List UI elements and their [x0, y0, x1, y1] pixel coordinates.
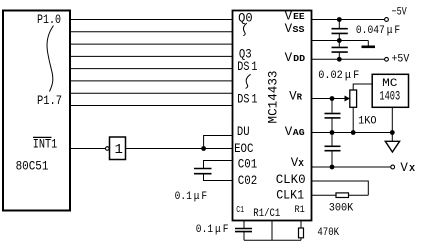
- pin label DS1 (lower): [237, 93, 257, 107]
- pin label INT1 (active low): [33, 137, 58, 151]
- pin label VX: [291, 156, 305, 170]
- wire CLK0 loop: [312, 181, 369, 195]
- ground (analog triangle): [385, 133, 399, 153]
- pin label P1.0: [37, 13, 61, 27]
- wire VX: [312, 166, 392, 168]
- value label 470K: [317, 227, 339, 239]
- svg-text:DD: DD: [293, 54, 306, 64]
- svg-text:X: X: [298, 159, 304, 169]
- node VAG junction 1: [330, 130, 335, 135]
- node VEE junction: [337, 17, 342, 22]
- wire bus line 5 (DS1): [70, 68, 232, 70]
- pin label P1.7: [37, 94, 62, 108]
- pin label DS1: [237, 60, 257, 74]
- inverter U2 bubble: [106, 147, 110, 151]
- wire C1 pin down: [243, 221, 245, 229]
- terminal +5V: [385, 57, 389, 61]
- value label 0.1 uF (C1 cap): [196, 224, 229, 236]
- pin label DU: [237, 125, 250, 139]
- wire bottom rail: [244, 239, 301, 241]
- potentiometer RP 1K body: [350, 90, 357, 107]
- IC MC14433 box: [233, 11, 312, 221]
- svg-text:0.02 μ F: 0.02 μ F: [318, 70, 359, 82]
- svg-text:470K: 470K: [317, 227, 339, 239]
- capacitor C1 0.047uF: [332, 20, 348, 41]
- svg-text:P1.0: P1.0: [37, 13, 61, 27]
- svg-text:DS 1: DS 1: [237, 93, 257, 107]
- svg-text:CLK1: CLK1: [276, 188, 304, 202]
- svg-text:C02: C02: [238, 174, 257, 188]
- wire R1 pin down: [300, 221, 302, 229]
- wire bus line 1 (P1.0 - Q0): [70, 19, 232, 21]
- wire CLK1: [312, 194, 337, 196]
- svg-text:INT1: INT1: [33, 138, 58, 152]
- pin label VSS: [285, 22, 306, 36]
- svg-text:0.1 μ F: 0.1 μ F: [196, 224, 229, 236]
- svg-text:300K: 300K: [329, 202, 354, 214]
- svg-text:MC14433: MC14433: [267, 71, 281, 124]
- capacitor C2 0.02uF: [332, 41, 348, 60]
- pin label Q3: [239, 48, 252, 62]
- svg-text:−5V: −5V: [392, 6, 407, 18]
- wire C02 pin: [204, 174, 233, 181]
- pin label EOC: [234, 142, 253, 156]
- label -5V: [392, 6, 407, 18]
- wire bus line 8 (DS4/P1.7): [70, 105, 232, 107]
- svg-text:CLK0: CLK0: [276, 173, 306, 187]
- wire VEE to -5V: [312, 19, 386, 21]
- svg-text:C1: C1: [236, 204, 244, 215]
- pin label VDD: [285, 51, 306, 65]
- svg-text:1: 1: [115, 142, 123, 158]
- value label 0.02 uF: [318, 70, 359, 82]
- svg-text:DS 1: DS 1: [237, 60, 257, 74]
- wire MC1403 gnd pin: [391, 107, 393, 132]
- svg-text:DU: DU: [237, 125, 250, 139]
- pin label VEE: [285, 9, 306, 23]
- pin label CLK1: [276, 188, 304, 202]
- svg-text:R: R: [297, 92, 303, 102]
- inverter U2 box: [110, 137, 126, 160]
- label Vx: [400, 161, 415, 175]
- node VAG junction 2: [351, 130, 356, 135]
- wire R1 body to rail: [300, 238, 302, 241]
- wire VSS: [312, 40, 369, 42]
- svg-text:EOC: EOC: [234, 142, 253, 156]
- node VX junction: [330, 165, 335, 170]
- svg-text:Q0: Q0: [238, 12, 253, 26]
- wiper arrowhead: [345, 96, 351, 102]
- IC 80C51 box: [3, 11, 70, 211]
- wire bus line 6: [70, 80, 232, 82]
- wire pot top to MC1403: [353, 84, 372, 90]
- wire bus line 4 (Q3): [70, 55, 232, 57]
- svg-text:P1.7: P1.7: [37, 94, 62, 108]
- pin label C1 (bottom): [236, 204, 244, 215]
- terminal Vx: [391, 165, 395, 169]
- value label 0.1 uF (C01/C02 cap): [175, 191, 208, 203]
- svg-text:0.1 μ F: 0.1 μ F: [175, 191, 208, 203]
- value label 300K: [329, 202, 354, 214]
- svg-text:MC: MC: [382, 78, 398, 90]
- wire bus line 7: [70, 92, 232, 94]
- svg-text:1403: 1403: [379, 90, 400, 104]
- pin label VAG: [285, 125, 305, 139]
- IC U3 MC1403: [372, 74, 408, 107]
- svg-text:R1: R1: [295, 205, 305, 216]
- pin label C02: [238, 174, 257, 188]
- capacitor C5 (VAG-VX): [325, 133, 341, 168]
- svg-text:1KO: 1KO: [358, 116, 377, 128]
- svg-text:V: V: [400, 161, 408, 175]
- vertical label MC14433: [267, 71, 281, 124]
- value label 1K: [358, 116, 377, 128]
- svg-text:SS: SS: [293, 25, 306, 35]
- wire VDD to +5V: [312, 58, 386, 60]
- svg-text:V: V: [285, 22, 293, 36]
- pin label R1 (bottom): [295, 205, 305, 216]
- wire bus line 3: [70, 43, 232, 45]
- svg-text:C01: C01: [238, 157, 257, 171]
- capacitor C3 0.1uF (C01-C02): [194, 169, 212, 174]
- wire junction up to DU: [204, 136, 232, 149]
- node VDD junction: [337, 57, 342, 62]
- capacitor C4 (VR-VAG): [325, 99, 341, 133]
- wire INT1 to inverter input: [70, 148, 106, 150]
- wire bus line 2: [70, 31, 232, 33]
- wire C01 pin: [204, 161, 233, 169]
- svg-text:80C51: 80C51: [16, 159, 49, 173]
- resistor R1 470K body: [299, 228, 304, 238]
- node VSS junction: [337, 38, 342, 43]
- node VAG junction 3: [390, 130, 395, 135]
- pin label C01: [238, 157, 257, 171]
- pin label VR: [289, 89, 303, 103]
- capacitor C6 0.1uF (C1 pin): [235, 229, 252, 241]
- svg-text:R1/C1: R1/C1: [253, 208, 280, 220]
- wire R1/C1 pin down: [271, 221, 273, 241]
- svg-text:EE: EE: [293, 12, 305, 22]
- squiggle (P1.0..P1.7 range): [47, 26, 54, 92]
- terminal -5V: [385, 18, 389, 22]
- resistor R2 300K body: [336, 193, 349, 198]
- svg-text:+5V: +5V: [392, 53, 410, 65]
- wire inverter output to EOC: [126, 148, 233, 150]
- pin label R1/C1 (bottom): [253, 208, 280, 220]
- wire VAG: [312, 132, 393, 134]
- svg-text:V: V: [285, 125, 293, 139]
- label 80C51: [16, 159, 49, 173]
- wire pot bottom to VAG: [352, 107, 354, 132]
- squiggle (DS1..DS4): [246, 74, 251, 88]
- wire VR to wiper: [312, 98, 346, 100]
- svg-text:0.047 μ F: 0.047 μ F: [356, 25, 400, 37]
- squiggle (Q0..Q3): [243, 23, 247, 36]
- value label 0.047 uF: [356, 25, 400, 37]
- pin label CLK0: [276, 173, 306, 187]
- node EOC junction: [201, 146, 206, 151]
- pin label Q0: [238, 12, 253, 26]
- node VR junction: [330, 96, 335, 101]
- svg-text:V: V: [285, 51, 293, 65]
- svg-text:AG: AG: [293, 128, 305, 138]
- svg-text:X: X: [409, 163, 415, 174]
- wire resistor to loop: [349, 194, 369, 196]
- ground (VSS bar ground): [362, 41, 376, 47]
- label +5V: [392, 53, 410, 65]
